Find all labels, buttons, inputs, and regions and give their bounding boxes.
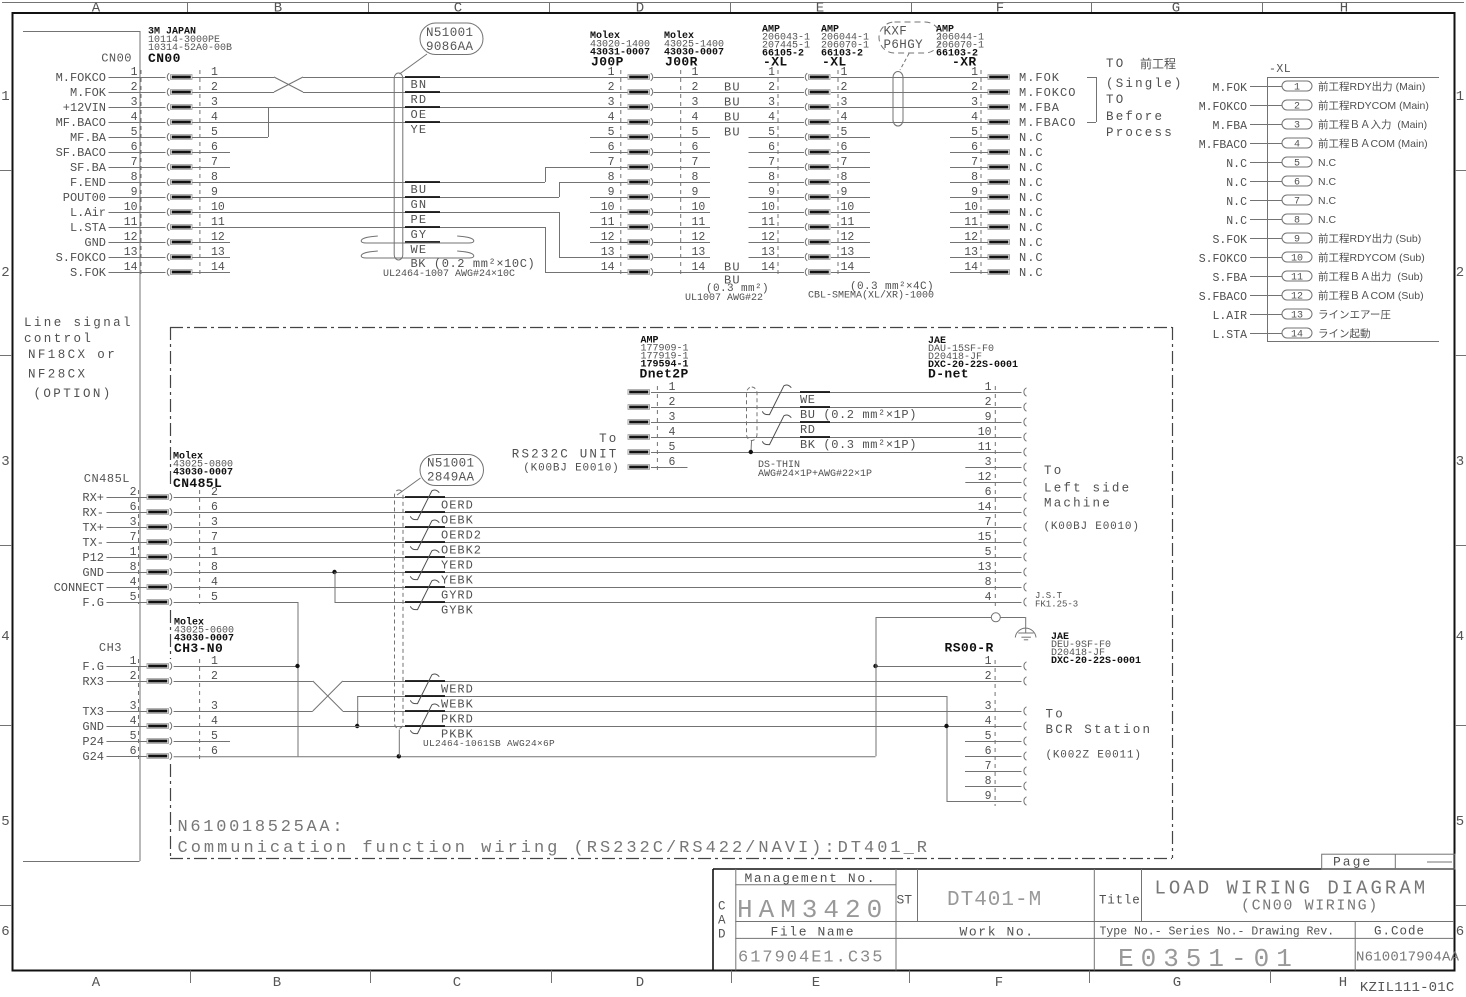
svg-text:Title: Title xyxy=(1099,894,1141,908)
svg-text:N.C: N.C xyxy=(1226,177,1247,190)
svg-text:TX-: TX- xyxy=(82,536,104,550)
svg-text:前工程RDY出力 (Sub): 前工程RDY出力 (Sub) xyxy=(1318,232,1421,245)
connector CN00 pins xyxy=(140,70,142,278)
svg-text:M.FOKCO: M.FOKCO xyxy=(56,71,106,85)
wire CN00.1/2 crossover to J00P xyxy=(192,77,274,79)
svg-text:11: 11 xyxy=(978,441,992,454)
svg-text:前工程RDYCOM (Main): 前工程RDYCOM (Main) xyxy=(1318,99,1429,112)
svg-text:3: 3 xyxy=(768,96,775,109)
svg-text:6: 6 xyxy=(608,141,615,154)
svg-text:HAM3420: HAM3420 xyxy=(737,895,888,925)
svg-text:MF.BACO: MF.BACO xyxy=(56,116,106,130)
svg-text:F: F xyxy=(996,1,1004,17)
cut conductor loops GY/WE xyxy=(361,236,474,243)
svg-text:M.FBACO: M.FBACO xyxy=(1019,116,1076,130)
svg-text:5: 5 xyxy=(608,126,615,139)
chassis ground symbol xyxy=(1025,617,1027,633)
svg-text:A: A xyxy=(92,1,101,17)
svg-text:RS232C UNIT: RS232C UNIT xyxy=(512,448,619,462)
svg-text:GY: GY xyxy=(411,228,428,242)
svg-text:4: 4 xyxy=(608,111,615,124)
svg-text:G: G xyxy=(1172,1,1180,17)
svg-text:RS00-R: RS00-R xyxy=(945,641,994,656)
svg-text:BU: BU xyxy=(724,111,741,125)
svg-text:TO: TO xyxy=(1106,93,1125,107)
page box xyxy=(1322,854,1455,869)
svg-text:N.C: N.C xyxy=(1019,161,1044,175)
svg-text:4: 4 xyxy=(1294,140,1300,151)
wire F.G down to CH3 xyxy=(174,602,298,604)
svg-text:S.FBACO: S.FBACO xyxy=(1199,291,1247,304)
svg-text:D: D xyxy=(718,928,726,942)
svg-text:前工程RDYCOM (Sub): 前工程RDYCOM (Sub) xyxy=(1318,251,1425,264)
svg-text:CONNECT: CONNECT xyxy=(54,581,104,595)
svg-text:14: 14 xyxy=(978,501,992,514)
svg-text:AWG#24×1P+AWG#22×1P: AWG#24×1P+AWG#22×1P xyxy=(758,469,872,480)
svg-text:2: 2 xyxy=(768,81,775,94)
svg-text:8: 8 xyxy=(608,171,615,184)
svg-text:1: 1 xyxy=(1456,89,1464,105)
svg-text:N51001: N51001 xyxy=(427,457,474,471)
svg-text:P24: P24 xyxy=(82,735,104,749)
svg-text:4: 4 xyxy=(1456,629,1464,645)
svg-text:POUT00: POUT00 xyxy=(63,191,106,205)
svg-text:F: F xyxy=(995,975,1003,991)
svg-text:TX3: TX3 xyxy=(82,705,104,719)
svg-text:N.C: N.C xyxy=(1318,176,1337,188)
svg-text:7: 7 xyxy=(985,516,992,529)
svg-text:M.FOKCO: M.FOKCO xyxy=(1199,101,1247,114)
wire G24/F.G row to RS00-R xyxy=(174,756,876,758)
svg-text:BCR Station: BCR Station xyxy=(1046,723,1153,737)
svg-text:Before: Before xyxy=(1106,110,1164,124)
wire CN00.10 (PE) jog to J00P.13 xyxy=(192,212,559,214)
svg-text:YERD: YERD xyxy=(441,559,474,573)
wire CN00.11 (GY) jog to J00P.14 xyxy=(192,227,545,229)
svg-text:Machine: Machine xyxy=(1044,497,1112,511)
svg-text:CH3: CH3 xyxy=(99,641,122,655)
svg-text:BU: BU xyxy=(724,261,741,275)
svg-text:13: 13 xyxy=(978,561,992,574)
svg-text:7: 7 xyxy=(608,156,615,169)
svg-text:OERD: OERD xyxy=(441,499,474,513)
svg-text:BN: BN xyxy=(411,78,428,92)
svg-text:N610017904AA: N610017904AA xyxy=(1356,950,1460,966)
svg-text:DXC-20-22S-0001: DXC-20-22S-0001 xyxy=(1051,656,1141,667)
svg-text:15: 15 xyxy=(978,531,992,544)
svg-text:OEBK: OEBK xyxy=(441,514,474,528)
svg-text:To: To xyxy=(1044,464,1063,478)
svg-text:N.C: N.C xyxy=(1318,157,1337,169)
svg-text:(Single): (Single) xyxy=(1106,77,1184,91)
svg-text:RD: RD xyxy=(800,423,816,437)
svg-text:4: 4 xyxy=(985,591,992,604)
svg-text:GND: GND xyxy=(82,720,104,734)
svg-text:ライン起動: ライン起動 xyxy=(1318,327,1371,340)
svg-text:RX+: RX+ xyxy=(82,491,104,505)
svg-text:SF.BA: SF.BA xyxy=(70,161,107,175)
svg-text:N.C: N.C xyxy=(1226,196,1247,209)
svg-text:H: H xyxy=(1340,1,1348,17)
svg-text:A: A xyxy=(92,975,101,991)
svg-text:13: 13 xyxy=(1291,311,1303,322)
svg-text:1: 1 xyxy=(985,381,992,394)
wire colour labels BN..BK xyxy=(405,76,440,78)
svg-text:2: 2 xyxy=(1,265,9,281)
svg-text:To: To xyxy=(599,432,618,446)
wire stubs D-net 3,12 xyxy=(965,467,1021,469)
svg-text:N.C: N.C xyxy=(1019,251,1044,265)
svg-text:BU: BU xyxy=(411,183,428,197)
svg-text:NF18CX or: NF18CX or xyxy=(28,348,117,362)
wire WEBK/PKBK to pins 4,9 xyxy=(946,696,948,801)
svg-text:SF.BACO: SF.BACO xyxy=(56,146,106,160)
svg-text:C: C xyxy=(454,1,462,17)
svg-text:BK (0.3 mm²×1P): BK (0.3 mm²×1P) xyxy=(800,438,917,452)
svg-text:10: 10 xyxy=(1291,254,1303,265)
svg-text:12: 12 xyxy=(601,231,615,244)
svg-text:Communication function wiring: Communication function wiring (RS232C/RS… xyxy=(178,839,931,858)
wire RX3/TX3 crossover xyxy=(174,681,313,683)
svg-text:N.C: N.C xyxy=(1019,236,1044,250)
svg-text:8: 8 xyxy=(985,576,992,589)
svg-text:N610018525AA:: N610018525AA: xyxy=(178,818,346,837)
svg-text:3: 3 xyxy=(1294,121,1300,132)
wires J00R to -XL xyxy=(654,77,805,79)
svg-text:14: 14 xyxy=(761,261,775,274)
svg-text:B: B xyxy=(273,975,281,991)
wire stub CN00.12 xyxy=(192,242,230,244)
svg-text:M.FBA: M.FBA xyxy=(1019,101,1060,115)
svg-text:N51001: N51001 xyxy=(426,26,473,40)
svg-text:617904E1.C35: 617904E1.C35 xyxy=(738,949,884,968)
svg-text:RX-: RX- xyxy=(82,506,104,520)
wire CN00.4 to J00P.4 xyxy=(192,122,628,124)
svg-text:前工程ＢＡCOM (Sub): 前工程ＢＡCOM (Sub) xyxy=(1318,289,1424,302)
group bracket rows1-4 xyxy=(1087,77,1096,79)
svg-text:S.FOK: S.FOK xyxy=(1212,234,1247,247)
svg-text:GYRD: GYRD xyxy=(441,589,474,603)
svg-text:F.G: F.G xyxy=(82,660,104,674)
communication function box xyxy=(170,327,1172,329)
svg-text:File Name: File Name xyxy=(771,925,856,940)
wire colour labels WERD..PKBK xyxy=(405,680,445,682)
svg-text:Work No.: Work No. xyxy=(960,925,1035,940)
svg-text:C: C xyxy=(453,975,461,991)
svg-text:CN485L: CN485L xyxy=(84,472,130,486)
svg-text:WE: WE xyxy=(411,243,428,257)
svg-text:6: 6 xyxy=(768,141,775,154)
svg-text:A: A xyxy=(718,914,726,928)
svg-text:M.FOK: M.FOK xyxy=(1019,71,1060,85)
svg-text:N.C: N.C xyxy=(1318,214,1337,226)
svg-text:B: B xyxy=(274,1,282,17)
wire stub P24 xyxy=(174,741,230,743)
svg-text:10: 10 xyxy=(978,426,992,439)
svg-text:E0351-01: E0351-01 xyxy=(1118,944,1299,974)
wire GND row with branch xyxy=(174,572,1022,574)
svg-text:GN: GN xyxy=(411,198,428,212)
svg-text:N.C: N.C xyxy=(1019,131,1044,145)
svg-text:N.C: N.C xyxy=(1318,195,1337,207)
svg-text:G24: G24 xyxy=(82,750,104,764)
svg-text:E: E xyxy=(816,1,824,17)
wire CN00.8 (BU) jog to J00P.7 xyxy=(192,182,545,184)
wire stubs RS00-R 5,6,7,8 xyxy=(965,741,1022,743)
svg-text:Dnet2P: Dnet2P xyxy=(640,367,689,382)
svg-text:MF.BA: MF.BA xyxy=(70,131,107,145)
svg-text:YEBK: YEBK xyxy=(441,574,474,588)
svg-text:control: control xyxy=(24,332,93,346)
svg-text:Management No.: Management No. xyxy=(745,871,877,886)
svg-text:(K00BJ E0010): (K00BJ E0010) xyxy=(523,463,619,475)
svg-text:4: 4 xyxy=(1,629,9,645)
svg-text:3: 3 xyxy=(1456,454,1464,470)
svg-text:KXF: KXF xyxy=(884,25,908,39)
svg-text:N.C: N.C xyxy=(1226,215,1247,228)
svg-text:RD: RD xyxy=(411,93,428,107)
svg-text:6: 6 xyxy=(1294,178,1300,189)
svg-text:4: 4 xyxy=(985,715,992,728)
svg-text:GND: GND xyxy=(84,236,106,250)
svg-text:G: G xyxy=(1173,975,1181,991)
wire colour labels WE/BU/RD/BK xyxy=(800,391,830,393)
svg-text:E: E xyxy=(812,975,820,991)
wire CH3 F.G row xyxy=(174,666,298,668)
svg-text:D: D xyxy=(636,975,644,991)
svg-text:L.AIR: L.AIR xyxy=(1212,310,1247,323)
svg-text:RX3: RX3 xyxy=(82,675,104,689)
cable sheath UL2464-1007 xyxy=(394,73,403,260)
wire CN00.3 to J00P.3 xyxy=(192,107,628,109)
svg-text:CN00: CN00 xyxy=(101,52,132,66)
connector Dnet2P pins xyxy=(656,386,658,470)
svg-text:OE: OE xyxy=(411,108,428,122)
svg-text:TX+: TX+ xyxy=(82,521,104,535)
svg-text:7: 7 xyxy=(1294,197,1300,208)
svg-text:Type No.- Series No.- Drawing: Type No.- Series No.- Drawing Rev. xyxy=(1100,926,1335,939)
svg-text:YE: YE xyxy=(411,123,428,137)
svg-text:2: 2 xyxy=(608,81,615,94)
svg-text:M.FOK: M.FOK xyxy=(70,86,107,100)
-XL / -XR pin columns xyxy=(777,70,779,278)
svg-text:6: 6 xyxy=(211,745,218,758)
svg-text:To: To xyxy=(1046,708,1065,722)
svg-text:N.C: N.C xyxy=(1019,266,1044,280)
svg-text:-XL: -XL xyxy=(763,55,788,70)
svg-text:前工程: 前工程 xyxy=(1140,56,1176,71)
svg-text:10: 10 xyxy=(601,201,615,214)
svg-text:6: 6 xyxy=(1,924,9,940)
svg-text:M.FBA: M.FBA xyxy=(1212,120,1247,133)
cable sheath DS-THIN (dashed) xyxy=(747,387,758,441)
svg-text:S.FBA: S.FBA xyxy=(1212,272,1247,285)
svg-text:FK1.25-3: FK1.25-3 xyxy=(1035,600,1078,610)
svg-text:9: 9 xyxy=(768,186,775,199)
wire RS00-R.1 to shell xyxy=(876,666,1022,668)
svg-text:1: 1 xyxy=(1,89,9,105)
svg-text:ラインエアー圧: ラインエアー圧 xyxy=(1318,309,1391,321)
wire stub CN00.6 xyxy=(192,152,230,154)
svg-text:BU: BU xyxy=(724,126,741,140)
svg-text:UL1007 AWG#22: UL1007 AWG#22 xyxy=(685,293,763,304)
svg-text:S.FOKCO: S.FOKCO xyxy=(1199,253,1247,266)
svg-text:S.FOKCO: S.FOKCO xyxy=(56,251,106,265)
svg-text:13: 13 xyxy=(761,246,775,259)
svg-text:2: 2 xyxy=(1456,265,1464,281)
svg-text:F.END: F.END xyxy=(70,176,106,190)
svg-text:WE: WE xyxy=(800,393,816,407)
svg-text:12: 12 xyxy=(761,231,775,244)
svg-text:3: 3 xyxy=(985,700,992,713)
svg-text:前工程RDY出力 (Main): 前工程RDY出力 (Main) xyxy=(1318,80,1425,93)
svg-text:12: 12 xyxy=(1291,292,1303,303)
svg-text:+12VIN: +12VIN xyxy=(63,101,106,115)
svg-text:UL2464-1061SB AWG24×6P: UL2464-1061SB AWG24×6P xyxy=(423,738,555,749)
svg-text:NF28CX: NF28CX xyxy=(28,368,87,382)
svg-text:D: D xyxy=(636,1,644,17)
title block xyxy=(713,868,1454,870)
svg-text:L.STA: L.STA xyxy=(1212,329,1247,342)
svg-text:N.C: N.C xyxy=(1019,146,1044,160)
svg-text:前工程ＢＡ入力 (Main): 前工程ＢＡ入力 (Main) xyxy=(1318,118,1427,131)
svg-text:8: 8 xyxy=(768,171,775,184)
svg-text:C: C xyxy=(718,900,726,914)
svg-text:7: 7 xyxy=(768,156,775,169)
svg-text:2: 2 xyxy=(985,670,992,683)
svg-text:(K00BJ E0010): (K00BJ E0010) xyxy=(1044,521,1140,533)
svg-text:TO: TO xyxy=(1106,57,1125,71)
wires CN485L to D-net xyxy=(174,497,1022,499)
svg-text:BU: BU xyxy=(724,81,741,95)
cable sheath UL2464-1061SB (dashed) xyxy=(395,490,404,729)
svg-text:OERD2: OERD2 xyxy=(441,529,482,543)
wire stub CN00.13 xyxy=(192,257,230,259)
wire CN00.5 jog up to row3 xyxy=(192,137,268,139)
wire stub CN00.14 xyxy=(192,272,230,274)
svg-text:CBL-SMEMA(XL/XR)-1000: CBL-SMEMA(XL/XR)-1000 xyxy=(808,290,934,302)
wire colour labels OERD..GYBK xyxy=(405,496,445,498)
wire stubs J00P.5,6,9,10,11,12 xyxy=(590,137,628,139)
svg-text:BU (0.2 mm²×1P): BU (0.2 mm²×1P) xyxy=(800,408,917,422)
svg-text:WERD: WERD xyxy=(441,683,474,697)
svg-text:2849AA: 2849AA xyxy=(427,471,475,485)
svg-text:CN00: CN00 xyxy=(148,51,181,66)
svg-text:9086AA: 9086AA xyxy=(426,40,474,54)
svg-text:UL2464-1007 AWG#24×10C: UL2464-1007 AWG#24×10C xyxy=(383,269,515,280)
svg-text:S.FOK: S.FOK xyxy=(70,266,107,280)
svg-text:D-net: D-net xyxy=(928,367,969,382)
svg-text:3: 3 xyxy=(608,96,615,109)
wires Dnet2P to D-net xyxy=(651,392,1022,394)
svg-text:N.C: N.C xyxy=(1019,176,1044,190)
sheet frame xyxy=(2,2,1464,4)
svg-text:LOAD WIRING DIAGRAM: LOAD WIRING DIAGRAM xyxy=(1155,878,1429,900)
machine boundary lines xyxy=(23,31,140,33)
svg-text:5: 5 xyxy=(1456,814,1464,830)
svg-text:Line signal: Line signal xyxy=(24,316,133,330)
svg-text:(OPTION): (OPTION) xyxy=(34,387,113,401)
shell terminal circle xyxy=(991,613,1000,622)
svg-text:N.C: N.C xyxy=(1226,158,1247,171)
svg-text:9: 9 xyxy=(1294,235,1300,246)
svg-text:KZIL111-01C: KZIL111-01C xyxy=(1360,980,1455,992)
svg-text:4: 4 xyxy=(768,111,775,124)
svg-text:1: 1 xyxy=(1294,83,1300,94)
svg-text:5: 5 xyxy=(985,546,992,559)
wire WEBK branch xyxy=(357,696,946,698)
svg-text:Left side: Left side xyxy=(1044,482,1131,496)
svg-text:Page: Page xyxy=(1333,855,1372,870)
svg-text:M.FBACO: M.FBACO xyxy=(1199,139,1247,152)
svg-text:M.FOK: M.FOK xyxy=(1212,82,1247,95)
svg-text:3: 3 xyxy=(1,454,9,470)
svg-text:5: 5 xyxy=(768,126,775,139)
svg-text:(K002Z E0011): (K002Z E0011) xyxy=(1046,750,1142,762)
svg-text:6: 6 xyxy=(1456,924,1464,940)
svg-text:CH3-N0: CH3-N0 xyxy=(174,641,223,656)
svg-text:G.Code: G.Code xyxy=(1374,925,1425,939)
svg-text:10: 10 xyxy=(761,201,775,214)
balloon N51001 2849AA xyxy=(420,455,484,486)
svg-text:PE: PE xyxy=(411,213,428,227)
wire GND/PKBK row xyxy=(174,726,1022,728)
svg-text:N.C: N.C xyxy=(1019,191,1044,205)
svg-text:9: 9 xyxy=(608,186,615,199)
svg-text:F.G: F.G xyxy=(82,596,104,610)
svg-text:2: 2 xyxy=(1294,102,1300,113)
cable sheath CBL-SMEMA xyxy=(893,72,903,127)
svg-text:11: 11 xyxy=(1291,273,1303,284)
svg-text:9: 9 xyxy=(985,411,992,424)
svg-text:前工程ＢＡCOM (Main): 前工程ＢＡCOM (Main) xyxy=(1318,137,1428,150)
svg-text:(CN00 WIRING): (CN00 WIRING) xyxy=(1241,898,1379,915)
svg-text:N.C: N.C xyxy=(1019,221,1044,235)
svg-text:BU: BU xyxy=(724,96,741,110)
svg-text:8: 8 xyxy=(1294,216,1300,227)
svg-text:OEBK2: OEBK2 xyxy=(441,544,482,558)
svg-text:H: H xyxy=(1339,975,1347,991)
svg-text:2: 2 xyxy=(985,396,992,409)
svg-text:5: 5 xyxy=(1294,159,1300,170)
svg-text:P6HGY: P6HGY xyxy=(884,38,924,52)
svg-text:P12: P12 xyxy=(82,551,104,565)
wire CN00.9 (GN) jog to J00P.8 xyxy=(192,197,559,199)
svg-text:13: 13 xyxy=(601,246,615,259)
J00P/J00R pin columns xyxy=(620,70,622,278)
svg-text:11: 11 xyxy=(601,216,615,229)
balloon N51001 9086AA xyxy=(420,23,483,55)
svg-text:-XL: -XL xyxy=(1269,63,1291,76)
svg-text:GND: GND xyxy=(82,566,104,580)
svg-text:14: 14 xyxy=(1291,330,1303,341)
svg-text:14: 14 xyxy=(601,261,615,274)
svg-text:DT401-M: DT401-M xyxy=(947,889,1042,912)
svg-text:Process: Process xyxy=(1106,126,1174,140)
svg-text:PKRD: PKRD xyxy=(441,713,474,727)
svg-text:前工程ＢＡ出力 (Sub): 前工程ＢＡ出力 (Sub) xyxy=(1318,270,1423,283)
svg-text:5: 5 xyxy=(1,814,9,830)
balloon KXF P6HGY xyxy=(879,22,941,53)
svg-text:1: 1 xyxy=(768,66,775,79)
svg-text:ST: ST xyxy=(897,893,913,908)
svg-text:L.Air: L.Air xyxy=(70,206,106,220)
svg-text:L.STA: L.STA xyxy=(70,221,107,235)
svg-text:1: 1 xyxy=(608,66,615,79)
svg-text:WEBK: WEBK xyxy=(441,698,474,712)
wire stub CN00.7 xyxy=(192,167,230,169)
svg-text:M.FOKCO: M.FOKCO xyxy=(1019,86,1076,100)
